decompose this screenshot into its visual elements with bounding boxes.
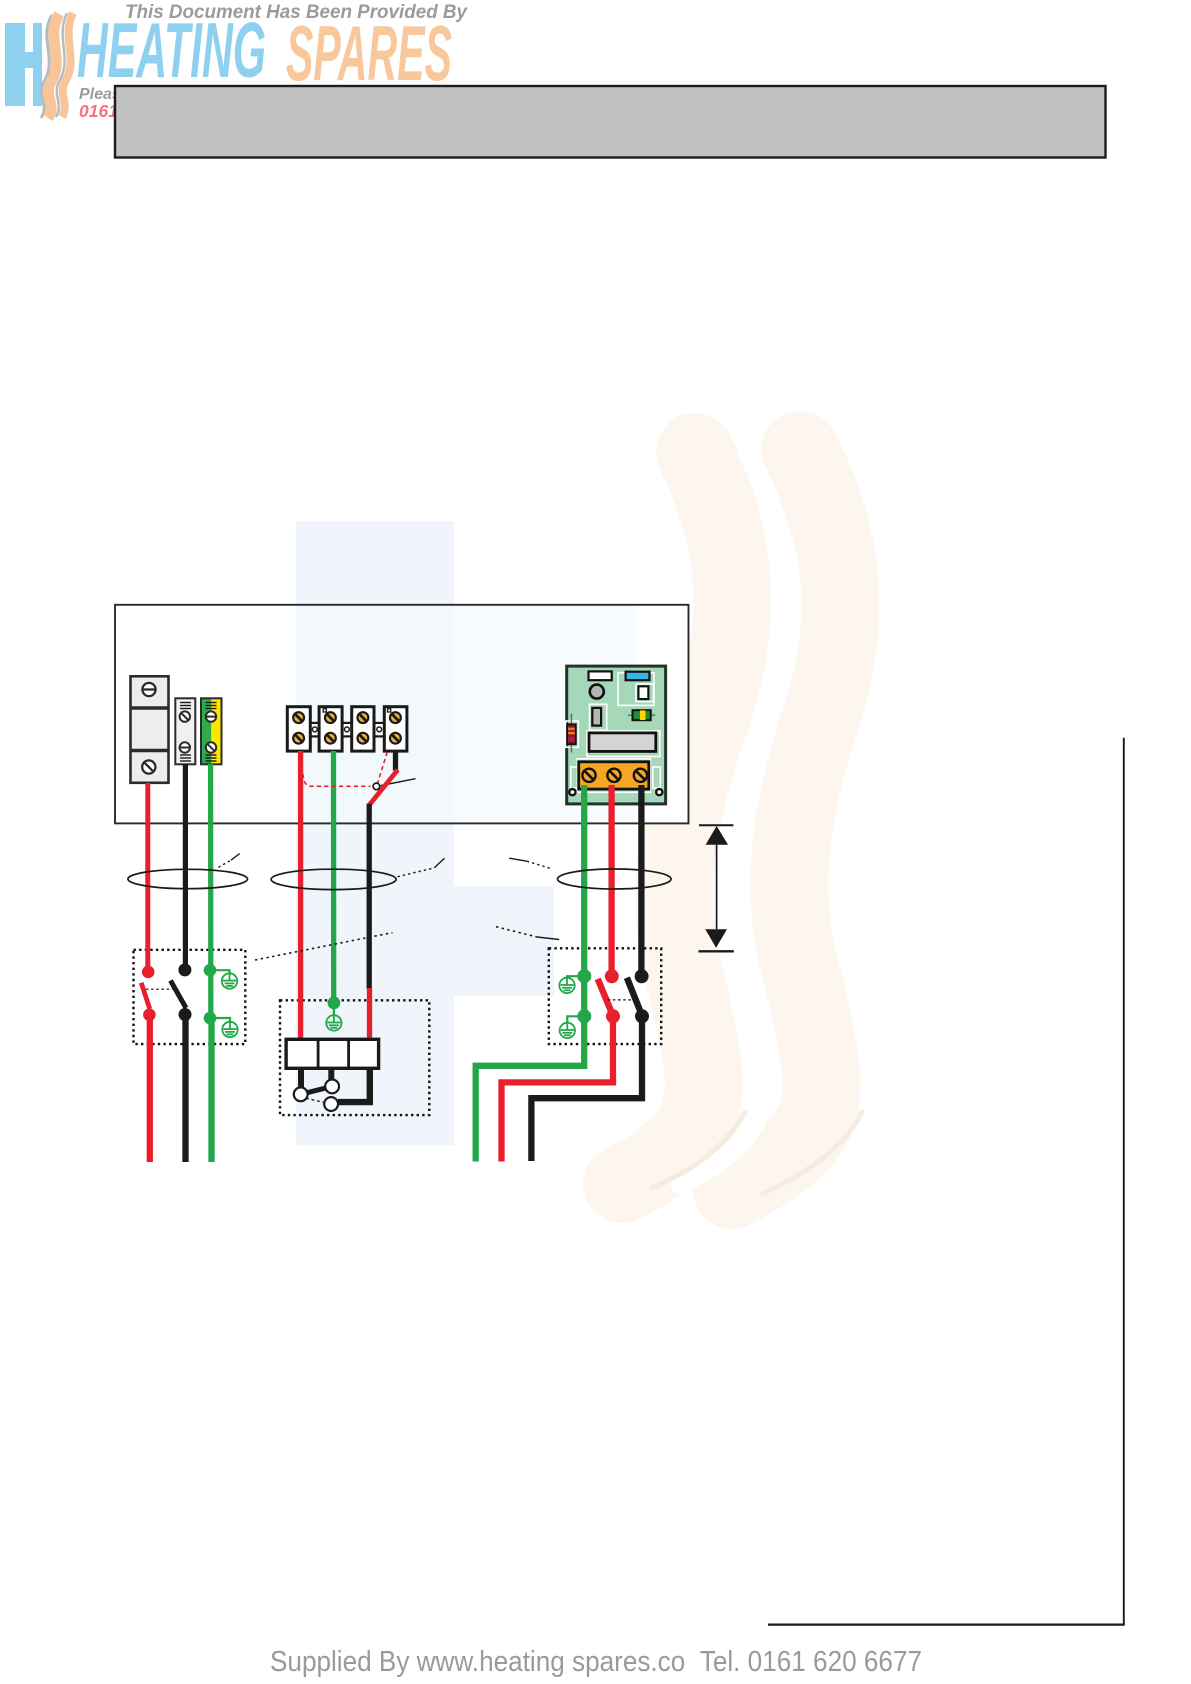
PCB terminal screw 2 xyxy=(607,769,620,782)
right isolator dotted box xyxy=(549,948,661,1044)
PCB white rectangle component xyxy=(589,671,612,680)
terminal 2 body xyxy=(319,707,342,751)
switch SW-R1 red node bottom xyxy=(606,1009,620,1023)
right box green branch bottom xyxy=(567,1016,584,1022)
resistor R2 horizontal xyxy=(628,714,655,716)
switch SW-L2 black node bottom xyxy=(179,1008,192,1021)
PCB terminal screw 3 xyxy=(634,769,647,782)
cable black tail right xyxy=(531,1016,642,1161)
terminal 2 pip xyxy=(323,709,326,712)
fuse holder divider bottom xyxy=(131,749,169,753)
earth strip yellow half xyxy=(211,698,221,764)
control box white fill (covers flame inside box) xyxy=(115,605,689,824)
earth node bottom left box xyxy=(204,1012,217,1025)
cable clamp ellipse left xyxy=(128,869,248,888)
PCB round capacitor xyxy=(590,685,604,699)
wire live red from fuse xyxy=(145,783,150,971)
dimension shaft xyxy=(716,845,718,930)
terminal 1 body xyxy=(287,707,310,751)
earth symbol E3 xyxy=(326,1015,341,1031)
neutral strip top hatching xyxy=(180,703,191,709)
cable green tail left xyxy=(208,1018,214,1162)
dimension bottom tick xyxy=(699,950,734,952)
cable red tail left xyxy=(147,1015,153,1162)
earth node top left box xyxy=(204,964,217,977)
switch SW-R2 black lever xyxy=(627,978,642,1017)
leader to left ellipse xyxy=(218,860,231,867)
grey title bar xyxy=(115,86,1106,158)
switch SW-L1 red lever xyxy=(141,983,150,1009)
cable red tail right xyxy=(502,1016,614,1161)
switch SW-R1 red lever xyxy=(598,979,614,1016)
neutral strip bottom hatching xyxy=(180,755,191,761)
thermostat contact circle 1 xyxy=(294,1087,308,1101)
PCB board xyxy=(567,666,666,804)
watermark flame tail shadow right xyxy=(762,1112,862,1194)
leader to right ellipse xyxy=(509,858,527,861)
watermark flame gap highlight xyxy=(681,452,785,1184)
logo flame S strokes xyxy=(48,14,59,118)
PCB mounting hole left xyxy=(568,788,577,797)
wire black from terminal 4 xyxy=(393,751,398,771)
earth branch bottom left box xyxy=(210,1018,230,1022)
wire red from PCB xyxy=(608,785,614,976)
resistor R1 vertical xyxy=(570,714,572,753)
wire neutral black from strip xyxy=(183,764,188,970)
overheat link dashed red B xyxy=(378,752,388,784)
svg-text:SPARES: SPARES xyxy=(286,9,452,97)
dimension bottom arrowhead xyxy=(705,929,727,948)
neutral strip top screw xyxy=(180,711,190,721)
PCB blue capacitor xyxy=(626,672,650,681)
switch SW-L1 red node top xyxy=(142,966,155,979)
terminal 4 body xyxy=(384,707,407,751)
thermostat earth node xyxy=(328,997,341,1010)
svg-text:Supplied By www.heating spares: Supplied By www.heating spares.co Tel. 0… xyxy=(270,1646,922,1678)
fuse holder FS1 body xyxy=(131,676,169,783)
PCB orange terminal block xyxy=(579,762,649,789)
earth strip bottom hatching xyxy=(206,755,217,761)
switch SW-L2 black lever xyxy=(171,981,187,1009)
earth strip outline xyxy=(201,698,222,764)
cable black tail left xyxy=(182,1015,188,1163)
earth symbol E4 xyxy=(559,978,574,993)
neutral strip body xyxy=(175,698,195,764)
terminal block link 2-3 xyxy=(342,723,352,737)
wire red into thermostat box xyxy=(367,988,372,1039)
thermostat contact circle 3 xyxy=(324,1097,338,1111)
right box green node bottom xyxy=(577,1009,591,1023)
fuse holder divider top xyxy=(131,706,169,710)
overheat switch pivot xyxy=(373,783,380,790)
thermostat pin 3 wire xyxy=(338,1068,370,1102)
earth strip top screw xyxy=(206,711,216,721)
leader to left isolator box xyxy=(255,933,393,960)
terminal block link 1-2 xyxy=(310,723,319,737)
switch SW-R1 red node top xyxy=(605,969,619,983)
earth symbol E5 xyxy=(560,1023,575,1039)
PCB mounting hole right xyxy=(655,788,664,797)
wire earth green from strip xyxy=(208,764,213,1018)
watermark H left bar xyxy=(296,521,454,605)
watermark H crossbar xyxy=(454,886,554,996)
thermostat contact circle 2 xyxy=(325,1080,339,1094)
watermark flame S right stroke xyxy=(732,450,840,1190)
wire black below overheat switch xyxy=(367,804,372,990)
earth branch top left box xyxy=(210,970,230,973)
thermostat switch dashed alt xyxy=(306,1098,326,1103)
switch linkage dashed left xyxy=(146,988,173,990)
leader to middle ellipse xyxy=(398,868,435,877)
switch SW-L2 black node top xyxy=(178,963,191,976)
thermostat stub pin 2 xyxy=(328,1068,334,1080)
svg-text:HEATING: HEATING xyxy=(77,6,266,94)
middle thermostat dotted box xyxy=(280,1000,429,1115)
terminal screws xyxy=(293,712,401,743)
terminal 3 body xyxy=(352,707,374,751)
overheat link dashed red A xyxy=(299,752,371,786)
wire red from terminal 1 xyxy=(298,751,303,1039)
overheat switch red lever xyxy=(370,770,398,805)
earth symbol E2 xyxy=(222,1022,237,1037)
overheat switch actuator line xyxy=(376,779,415,787)
left isolator dotted box xyxy=(134,950,246,1044)
wire black from PCB xyxy=(638,785,644,976)
earth symbol E1 xyxy=(222,973,237,988)
cable clamp ellipse right xyxy=(558,869,672,889)
dimension top tick xyxy=(699,824,733,826)
thermostat terminal strip xyxy=(286,1039,379,1068)
earth strip green half xyxy=(201,698,211,764)
neutral strip bottom screw xyxy=(180,742,190,752)
PCB terminal screw 1 xyxy=(582,769,595,782)
earth strip top hatching xyxy=(206,703,217,709)
thermostat switch lever xyxy=(301,1086,332,1094)
control box outline xyxy=(115,605,689,824)
switch SW-L1 red node bottom xyxy=(143,1009,156,1022)
fuse holder bottom screw xyxy=(142,760,155,773)
right box green branch top xyxy=(567,976,584,978)
leader to right isolator box xyxy=(496,927,537,937)
wire green from terminal 2 xyxy=(331,751,337,1003)
thermostat earth stem xyxy=(333,1003,335,1015)
PCB small grey component xyxy=(592,708,601,726)
cable clamp ellipse middle xyxy=(271,869,396,889)
faint wash inside control box xyxy=(296,605,454,824)
table border horizontal line xyxy=(768,1623,1125,1625)
dimension top arrowhead xyxy=(706,826,729,845)
watermark flame S left stroke xyxy=(622,452,732,1184)
switch linkage dashed right xyxy=(608,999,633,1001)
PCB silkscreen outlines xyxy=(566,673,661,792)
terminal 4 pip xyxy=(388,709,391,712)
earth strip bottom screw xyxy=(206,742,216,752)
PCB display block xyxy=(589,733,656,752)
logo flame shadow swooshes xyxy=(41,15,52,118)
table border vertical line xyxy=(1123,738,1125,1625)
fuse holder top screw xyxy=(142,683,155,696)
watermark flame tail shadow left xyxy=(652,1112,745,1188)
right box green node top xyxy=(577,969,591,983)
PCB white square component xyxy=(638,686,648,699)
terminal block link 3-4 xyxy=(374,723,384,737)
switch SW-R2 black node top xyxy=(635,969,649,983)
wire green from PCB xyxy=(476,785,585,1162)
logo H letterform xyxy=(5,23,42,106)
thermostat stub pin 1 xyxy=(298,1068,304,1089)
switch SW-R2 black node bottom xyxy=(635,1009,649,1023)
